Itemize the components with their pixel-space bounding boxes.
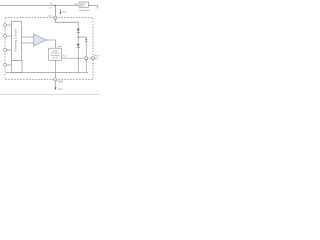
caption rule [0, 93, 100, 95]
wire opamp output [47, 40, 56, 48]
pin 4 left terminal [4, 64, 7, 67]
wire pin2 to block [7, 35, 12, 37]
wire VS stub to VCC pin [55, 6, 57, 17]
wire D1 to D2 [77, 32, 79, 43]
wire tap to output branch [78, 37, 86, 39]
op-amp U1 [34, 34, 47, 46]
wire block bottom to ground rail [55, 60, 57, 72]
pin VOUT terminal [92, 57, 95, 60]
wire VCC pin to right branch [56, 19, 79, 22]
current arrow IVCC [59, 9, 67, 15]
wire pin1 to block [7, 24, 12, 26]
block offset clamping rectifying circuit [49, 48, 62, 60]
svg-text:RS: RS [74, 4, 77, 6]
diode D1 [77, 29, 80, 33]
svg-text:IGND: IGND [58, 89, 63, 91]
node VS junction [55, 5, 57, 7]
wire ground rail [6, 72, 88, 74]
wire opamp input - [22, 42, 34, 44]
wire VOUT external [95, 57, 98, 59]
node D junction [77, 36, 79, 38]
pin 2 left terminal [4, 35, 7, 38]
svg-text:Vout: Vout [63, 55, 67, 58]
wire opamp input + [22, 36, 34, 38]
wire rail to GND pin [55, 73, 57, 79]
diode D2 [77, 44, 80, 48]
svg-text:Sensing Circuit: Sensing Circuit [14, 29, 18, 52]
resistor RS (series supply component, top right) [79, 2, 89, 8]
svg-text:Gain: Gain [57, 46, 62, 48]
wire D2 to rail [77, 48, 79, 73]
wire D3 to output node [85, 41, 87, 56]
svg-text:VOUT: VOUT [94, 56, 99, 58]
block sensing circuit [12, 22, 22, 61]
svg-text:5 V: 5 V [49, 8, 53, 10]
diode D3 [85, 39, 87, 42]
wire right branch upper [77, 22, 79, 28]
svg-text:GND: GND [58, 82, 63, 84]
pin 3 left terminal [4, 49, 7, 52]
wire output node down to rail [85, 60, 87, 73]
svg-text:VS: VS [50, 3, 54, 6]
svg-text:IVCC: IVCC [62, 12, 67, 14]
wire supply rail top [0, 6, 97, 9]
pin 1 left terminal [4, 24, 7, 27]
pin VCC terminal circle [54, 16, 57, 19]
wire block output to VOUT pin [62, 57, 85, 59]
svg-text:Filter: Filter [80, 5, 85, 8]
wire pin3 to block [7, 49, 12, 51]
wire between nodes [88, 57, 92, 59]
wire pin4 to lower block [7, 64, 12, 66]
node output open circle [85, 57, 88, 60]
IC boundary dashed box [5, 18, 93, 80]
pin GND terminal [54, 78, 57, 81]
block lower (filter) [12, 61, 23, 73]
wire GND external [55, 81, 57, 88]
svg-text:Circuit: Circuit [52, 57, 58, 60]
current arrow IGND [54, 87, 63, 90]
svg-text:100nF/50V: 100nF/50V [79, 10, 90, 12]
